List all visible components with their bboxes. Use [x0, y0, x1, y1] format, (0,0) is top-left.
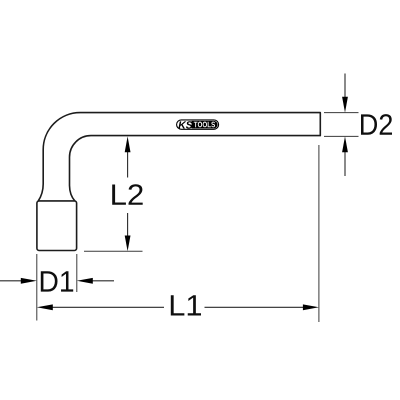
L2 upper arrowhead — [125, 136, 131, 152]
L1 label — [171, 295, 201, 315]
L1 left dimension line — [52, 306, 164, 308]
L2 bottom extension line — [84, 250, 143, 252]
D2 upper dimension line — [344, 74, 346, 98]
D1 right arrowhead — [77, 278, 93, 284]
KS TOOLS logo stadium — [177, 120, 219, 129]
logo TOOLS black box — [192, 121, 218, 129]
L1 left arrowhead — [37, 304, 53, 310]
D2 extension line top — [324, 112, 359, 114]
logo KS text — [178, 121, 192, 128]
logo TOOLS text — [194, 122, 215, 128]
L1 right arrowhead — [303, 304, 319, 310]
D1 left arrow line — [0, 280, 22, 282]
D2 lower dimension line — [344, 152, 346, 177]
wrench socket head — [37, 201, 77, 251]
D1 left extension line — [36, 254, 38, 321]
L1 right dimension line — [205, 306, 304, 308]
D1 left arrowhead — [21, 278, 37, 284]
D2 upper arrowhead — [342, 97, 348, 113]
L2 lower dimension line — [127, 213, 129, 236]
D2 lower arrowhead — [342, 136, 348, 152]
D2 extension line bottom — [324, 135, 359, 137]
D1 right extension line — [76, 254, 78, 292]
L2 label — [112, 184, 143, 205]
L1 right extension line — [318, 145, 320, 322]
D1 label — [41, 271, 73, 291]
L2 lower arrowhead — [125, 236, 131, 252]
D2 label — [361, 114, 392, 135]
wrench L-shaped arm outline — [38, 113, 320, 201]
D1 right arrow line — [93, 280, 115, 282]
L2 upper dimension line — [127, 152, 129, 178]
